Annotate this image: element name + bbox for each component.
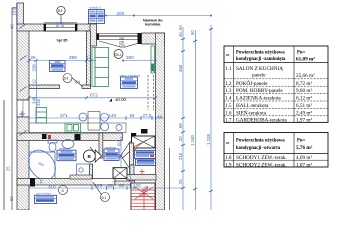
wall bath right lower	[90, 164, 93, 185]
svg-text:1.5: 1.5	[225, 103, 232, 109]
svg-text:6,12 m²: 6,12 m²	[296, 96, 312, 102]
svg-text:nr: nr	[226, 52, 230, 57]
glass door DB-1 top	[97, 34, 147, 49]
svg-text:1 239: 1 239	[206, 133, 211, 145]
svg-text:±0.00: ±0.00	[115, 97, 127, 102]
svg-text:460: 460	[178, 64, 183, 72]
table 2 stairs	[224, 133, 328, 169]
svg-text:200: 200	[117, 11, 125, 16]
red plus	[140, 169, 145, 174]
wall top exterior	[17, 24, 96, 31]
svg-text:ŁAZIENKA-terakota: ŁAZIENKA-terakota	[236, 96, 281, 102]
door D1 bottom circle	[101, 193, 110, 202]
svg-text:Powierzchnia użytkowa: Powierzchnia użytkowa	[236, 51, 285, 56]
svg-text:12: 12	[86, 55, 92, 60]
svg-text:310: 310	[48, 184, 56, 189]
dim 371 line kitchen	[29, 113, 164, 120]
dining chair left	[79, 113, 87, 121]
door D1 pokoj circle	[63, 74, 72, 83]
svg-text:84: 84	[75, 80, 81, 85]
dining chair right2	[101, 123, 109, 131]
svg-text:1,07 m²: 1,07 m²	[296, 162, 312, 168]
svg-text:kondygnacji -otwarta: kondygnacji -otwarta	[236, 146, 281, 151]
tick left wall y114	[19, 113, 25, 115]
svg-text:hpr 85: hpr 85	[57, 38, 68, 42]
wardrobe X box sien	[113, 168, 127, 179]
wall right exterior	[156, 33, 165, 210]
wall stairs top	[127, 175, 156, 181]
wall left exterior	[17, 3, 24, 25]
svg-text:4,69 m²: 4,69 m²	[296, 155, 312, 161]
svg-text:672: 672	[90, 93, 98, 98]
svg-text:DB-1: DB-1	[114, 53, 122, 57]
sink green	[65, 123, 81, 133]
marker 5 circle	[59, 186, 68, 195]
blue minitable pokoj	[50, 61, 66, 72]
svg-text:50: 50	[60, 22, 65, 27]
wall bath-hall vertical	[99, 133, 103, 158]
svg-text:84: 84	[130, 113, 136, 118]
dim right chain 3	[206, 25, 213, 210]
svg-text:1.9: 1.9	[225, 162, 232, 168]
chimney black	[138, 33, 142, 44]
svg-text:1 160: 1 160	[190, 134, 195, 146]
vent red	[48, 135, 51, 139]
svg-text:1,97 m²: 1,97 m²	[296, 117, 312, 123]
svg-text:153: 153	[12, 7, 17, 15]
svg-text:GARDEROBA-terakota: GARDEROBA-terakota	[236, 117, 287, 123]
blue minitable lazienka	[57, 147, 76, 161]
svg-text:1.2: 1.2	[225, 81, 232, 87]
wire left siding line	[12, 8, 17, 210]
dim 298 vertical	[36, 61, 38, 90]
dim right chain 2	[190, 30, 197, 210]
svg-text:1.1: 1.1	[225, 66, 232, 72]
wire dashed duct	[147, 75, 149, 110]
svg-text:Powierzchnia użytkowa: Powierzchnia użytkowa	[236, 139, 285, 144]
svg-text:pom.hobby: pom.hobby	[36, 192, 51, 196]
svg-text:25,66 m²: 25,66 m²	[296, 73, 315, 79]
svg-text:6,51 m²: 6,51 m²	[296, 103, 312, 109]
svg-text:9,60 m²: 9,60 m²	[296, 88, 312, 94]
svg-text:245: 245	[36, 98, 41, 106]
svg-text:Pu=: Pu=	[297, 51, 306, 56]
pier hall door	[131, 133, 136, 141]
svg-text:61,09 m²: 61,09 m²	[296, 57, 315, 63]
blue minitable pom.hobby	[35, 192, 57, 204]
svg-text:kominka: kominka	[145, 23, 161, 27]
dining chair right	[100, 113, 108, 121]
svg-text:218: 218	[178, 152, 183, 160]
svg-text:1.8: 1.8	[225, 155, 232, 161]
svg-text:POKÓJ-panele: POKÓJ-panele	[236, 79, 268, 87]
svg-text:25: 25	[178, 179, 183, 184]
svg-text:O70: O70	[119, 44, 125, 48]
door D1 pokoj leaf	[68, 75, 82, 87]
kitchen tall unit green	[36, 108, 47, 124]
blue minitable hall	[104, 145, 119, 160]
window D4 in top wall	[44, 23, 77, 31]
svg-text:1.4: 1.4	[225, 96, 232, 102]
svg-text:SCHODY1 ZEW.-terak.: SCHODY1 ZEW.-terak.	[236, 155, 287, 161]
stairs box	[131, 183, 155, 210]
dim 26 299 12 line	[28, 55, 97, 63]
blue minitable garderoba	[135, 151, 156, 166]
svg-text:1,20: 1,20	[139, 193, 145, 197]
lintel black kitchen end	[141, 129, 148, 134]
pier black 1	[42, 134, 47, 139]
tick left wall y89	[20, 87, 27, 92]
svg-text:360: 360	[126, 55, 134, 60]
svg-text:kondygnacji -zamknięta: kondygnacji -zamknięta	[236, 57, 286, 62]
svg-text:50: 50	[9, 196, 14, 201]
svg-text:1.6: 1.6	[225, 110, 232, 116]
svg-text:nr: nr	[226, 140, 230, 145]
marker DB-1 circle	[114, 50, 123, 59]
svg-text:120: 120	[133, 183, 141, 188]
svg-text:D4: D4	[58, 9, 63, 13]
wall garderoba left	[130, 143, 134, 165]
svg-text:48: 48	[10, 24, 15, 29]
svg-text:5,76 m²: 5,76 m²	[296, 145, 313, 151]
svg-text:299: 299	[69, 55, 77, 60]
marker D4 circle	[57, 6, 65, 14]
dim 153 top-left	[16, 3, 18, 25]
dim 360 line	[122, 55, 157, 62]
svg-text:D1: D1	[102, 196, 107, 200]
washbasin	[62, 140, 74, 149]
svg-text:298: 298	[32, 64, 37, 72]
wire right siding	[168, 148, 170, 210]
svg-text:SALON Z KUCHNIĄ: SALON Z KUCHNIĄ	[236, 66, 283, 72]
dim hall vertical 60 92	[120, 137, 122, 168]
dim bottom chain	[29, 183, 183, 190]
svg-text:140: 140	[109, 113, 117, 118]
door pom.hobby opening	[93, 179, 112, 185]
wall sien bottom	[115, 181, 135, 185]
dim 672 line	[28, 93, 158, 100]
svg-text:1.7: 1.7	[225, 117, 232, 123]
svg-text:20: 20	[178, 136, 183, 141]
svg-text:POM. HOBBY-panele: POM. HOBBY-panele	[236, 88, 283, 94]
wall pier right of window	[90, 24, 97, 46]
wall bottom pom.hobby	[17, 179, 115, 186]
chair lower	[116, 125, 122, 131]
wall left window segment	[17, 100, 29, 117]
svg-text:8,72 m²: 8,72 m²	[296, 81, 312, 87]
wire left property line	[3, 100, 5, 210]
svg-text:77: 77	[39, 179, 44, 184]
wall pokoj bottom	[29, 85, 60, 89]
table 1 rooms	[224, 46, 328, 123]
bathtub corner	[23, 145, 61, 185]
svg-text:12: 12	[32, 79, 37, 84]
svg-text:60: 60	[117, 141, 122, 146]
svg-text:55: 55	[119, 183, 125, 188]
shelf green salon	[92, 48, 109, 87]
wall sien vertical	[130, 165, 135, 185]
svg-text:92: 92	[117, 154, 122, 159]
door sien leaf	[122, 158, 132, 172]
tick left wall y26	[20, 24, 27, 29]
dim 345 vertical	[36, 89, 38, 123]
pier black bottom-left	[30, 178, 35, 187]
tick left wall y133	[20, 131, 27, 136]
svg-text:48: 48	[157, 115, 163, 120]
svg-text:2,49 m²: 2,49 m²	[296, 110, 312, 116]
wall kitchen-bath	[17, 133, 122, 141]
svg-text:125: 125	[95, 183, 103, 188]
svg-text:98: 98	[178, 123, 183, 128]
svg-text:1.3: 1.3	[225, 88, 232, 94]
blue minitable salon	[120, 73, 141, 88]
svg-text:27,5: 27,5	[143, 113, 152, 118]
wardrobe X box garderoba	[132, 136, 156, 148]
kitchen counter	[29, 123, 126, 133]
fireplace green	[151, 46, 155, 73]
dim right chain 1	[178, 25, 185, 210]
svg-text:25: 25	[6, 166, 11, 171]
pier black 2	[75, 134, 81, 140]
red arrow	[132, 140, 146, 151]
dining table	[88, 112, 100, 131]
door hall leaf 2	[122, 150, 131, 159]
svg-text:Pu=: Pu=	[297, 139, 306, 144]
svg-text:SIEŃ-terakota: SIEŃ-terakota	[236, 108, 267, 116]
door hall leaf 1	[122, 141, 131, 155]
svg-text:schody 2: schody 2	[89, 6, 101, 10]
svg-text:26: 26	[31, 55, 37, 60]
washing machine	[77, 164, 90, 176]
svg-text:46, 50: 46, 50	[178, 25, 183, 37]
wall pokoj right	[87, 31, 91, 86]
svg-text:panele: panele	[252, 73, 266, 79]
section marker B	[83, 150, 101, 162]
door bath leaf	[90, 147, 99, 158]
tick left wall y58	[20, 56, 27, 61]
svg-text:D1: D1	[64, 77, 69, 81]
wall left lower	[17, 117, 29, 210]
svg-text:SCHODY2 ZEW.-terak.: SCHODY2 ZEW.-terak.	[236, 162, 287, 168]
stairs red treads	[131, 187, 155, 210]
toilet	[48, 140, 57, 152]
svg-text:50: 50	[190, 30, 195, 35]
blue minitable top window	[89, 6, 105, 24]
dim 200 top	[105, 11, 213, 17]
svg-text:371: 371	[60, 113, 68, 118]
wall top-right	[142, 33, 165, 44]
svg-text:25: 25	[108, 183, 114, 188]
svg-text:HALL-terakota: HALL-terakota	[236, 103, 269, 109]
